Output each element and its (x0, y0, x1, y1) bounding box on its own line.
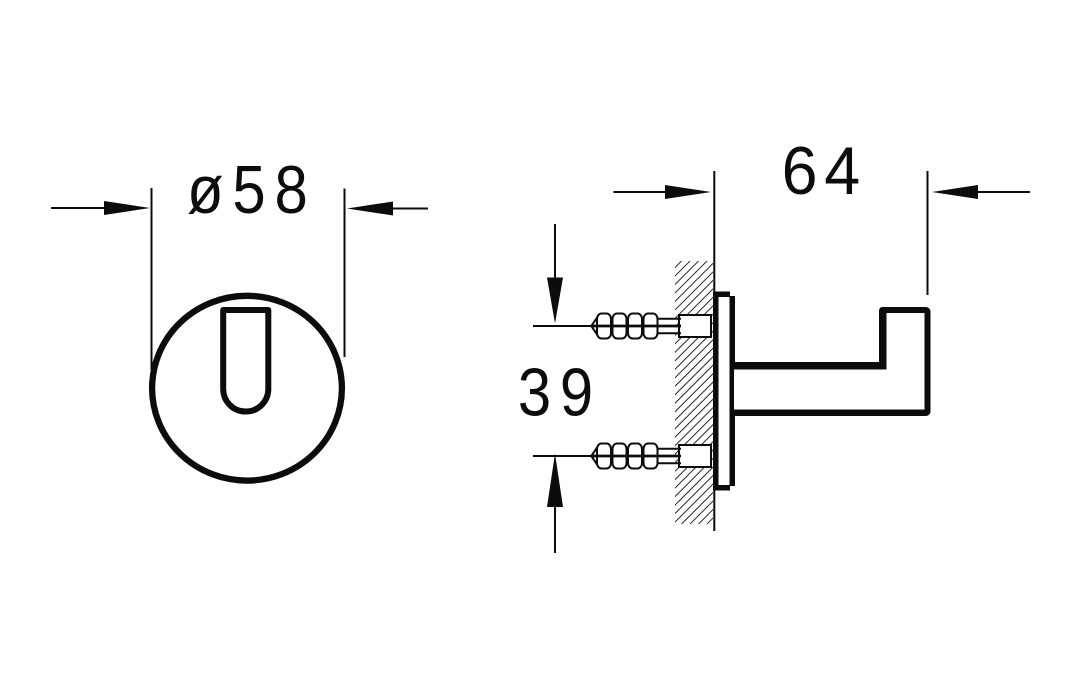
svg-text:39: 39 (518, 354, 602, 430)
svg-text:ø58: ø58 (187, 151, 317, 227)
svg-text:64: 64 (782, 134, 867, 210)
